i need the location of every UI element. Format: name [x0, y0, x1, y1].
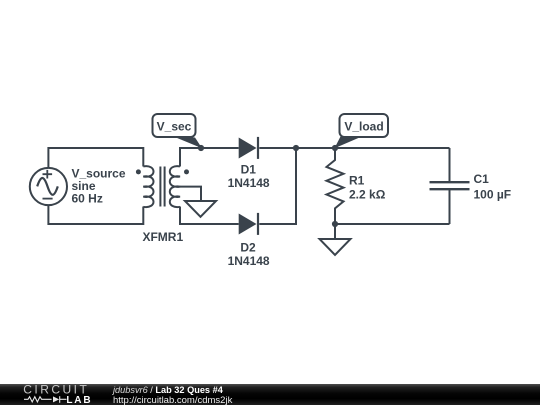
resistor R1 — [327, 148, 344, 224]
node R1 bottom junction — [332, 221, 338, 227]
svg-text:D1: D1 — [241, 163, 257, 177]
svg-text:100 µF: 100 µF — [474, 188, 512, 202]
wire secondary top to D1 anode — [180, 148, 239, 167]
ground (transformer center tap) — [185, 201, 216, 217]
svg-text:2.2 kΩ: 2.2 kΩ — [349, 188, 386, 202]
label C1 100 uF — [474, 172, 512, 202]
svg-text:D2: D2 — [240, 241, 256, 255]
label D1 1N4148 — [228, 163, 270, 190]
wire D2 loop: secondary bottom to D2 anode — [180, 207, 239, 225]
label V_source sine 60 Hz — [72, 167, 126, 206]
label D2 1N4148 — [228, 241, 270, 269]
wire secondary center tap — [180, 187, 201, 201]
wire source bottom to primary bottom — [48, 205, 143, 224]
voltage source V_source — [30, 168, 67, 205]
node junction D1 D2 — [293, 145, 299, 151]
svg-text:XFMR1: XFMR1 — [142, 230, 183, 244]
label R1 2.2 kOhm — [349, 174, 386, 202]
wire R1 bottom to ground — [334, 224, 336, 239]
svg-text:C1: C1 — [474, 172, 490, 186]
node V_load junction — [332, 145, 338, 151]
net flag V_load — [335, 114, 389, 148]
svg-text:V_sec: V_sec — [157, 120, 192, 134]
wire D1 cathode to junction — [259, 147, 296, 149]
svg-text:60 Hz: 60 Hz — [72, 192, 103, 206]
diode D2 — [239, 213, 258, 235]
capacitor C1 — [430, 148, 470, 224]
node V_sec junction — [198, 145, 204, 151]
svg-text:LAB: LAB — [66, 395, 92, 405]
wire bottom rail R1 to C1 — [335, 223, 450, 225]
wire source top to primary top — [48, 148, 143, 168]
svg-text:R1: R1 — [349, 174, 365, 188]
ground (below R1) — [320, 239, 351, 255]
svg-text:V_load: V_load — [344, 120, 383, 134]
diode D1 — [239, 137, 258, 159]
wire junction to V_load node — [296, 147, 335, 149]
svg-text:1N4148: 1N4148 — [228, 254, 270, 268]
net flag V_sec — [153, 114, 203, 148]
wire D2 cathode up to junction — [259, 148, 296, 224]
wire V_load node to C1 top — [335, 147, 450, 149]
transformer XFMR1 — [136, 166, 189, 207]
svg-text:1N4148: 1N4148 — [228, 176, 270, 190]
